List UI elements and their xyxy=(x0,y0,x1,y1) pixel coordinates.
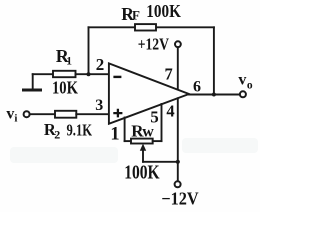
wire pin 5 lead xyxy=(161,104,163,141)
svg-text:v: v xyxy=(6,105,14,122)
op-amp U1 triangle xyxy=(109,63,189,123)
terminal vi circle xyxy=(24,111,30,117)
node junction wiper/-12V xyxy=(176,160,180,164)
wire pin 4 supply xyxy=(177,98,179,181)
svg-text:6: 6 xyxy=(193,79,201,96)
wire feedback drop xyxy=(213,27,215,94)
op-amp plus sign xyxy=(113,109,122,118)
wire wiper horizontal xyxy=(143,161,178,163)
faint scan ghost band left xyxy=(10,147,118,163)
wire pot right xyxy=(153,140,162,142)
svg-text:o: o xyxy=(247,79,253,91)
op-amp minus sign xyxy=(113,76,121,78)
svg-text:9.1K: 9.1K xyxy=(67,121,93,140)
node junction pin2 xyxy=(87,72,91,76)
wire wiper stem xyxy=(142,150,144,162)
svg-text:3: 3 xyxy=(95,97,103,114)
svg-text:10K: 10K xyxy=(52,78,78,98)
svg-text:2: 2 xyxy=(54,128,60,142)
svg-text:+12V: +12V xyxy=(138,35,170,54)
resistor R2 xyxy=(55,111,76,118)
terminal +12V circle xyxy=(175,41,181,47)
svg-text:100K: 100K xyxy=(124,162,160,183)
wire output xyxy=(189,94,240,96)
svg-text:100K: 100K xyxy=(146,1,181,21)
wire pot left xyxy=(125,140,131,142)
wire pin 7 supply xyxy=(177,47,179,89)
faint scan ghost band right xyxy=(182,138,258,153)
svg-text:v: v xyxy=(238,72,246,89)
svg-text:F: F xyxy=(132,8,140,23)
resistor RF xyxy=(135,24,156,30)
svg-text:4: 4 xyxy=(166,101,174,120)
wire feedback riser xyxy=(88,27,90,74)
wiper arrowhead xyxy=(140,144,146,151)
potentiometer Rw body xyxy=(131,139,153,144)
svg-text:i: i xyxy=(14,113,17,125)
svg-text:2: 2 xyxy=(96,55,105,74)
svg-text:7: 7 xyxy=(165,64,173,83)
svg-text:1: 1 xyxy=(66,56,72,68)
wire vi to R2 xyxy=(30,113,55,115)
node junction output xyxy=(212,93,216,97)
terminal -12V circle xyxy=(175,181,181,187)
wire pin 1 lead xyxy=(124,118,126,142)
svg-text:−12V: −12V xyxy=(161,189,198,209)
wire R1 to node A xyxy=(76,73,110,75)
ground xyxy=(32,74,34,89)
wire R2 to pin 3 xyxy=(76,113,109,115)
svg-text:1: 1 xyxy=(110,124,119,144)
wire ground to R1 xyxy=(33,73,53,75)
terminal vo circle xyxy=(240,91,246,97)
wire top feedback xyxy=(89,26,214,28)
resistor R1 xyxy=(53,71,76,77)
svg-text:w: w xyxy=(142,124,154,141)
